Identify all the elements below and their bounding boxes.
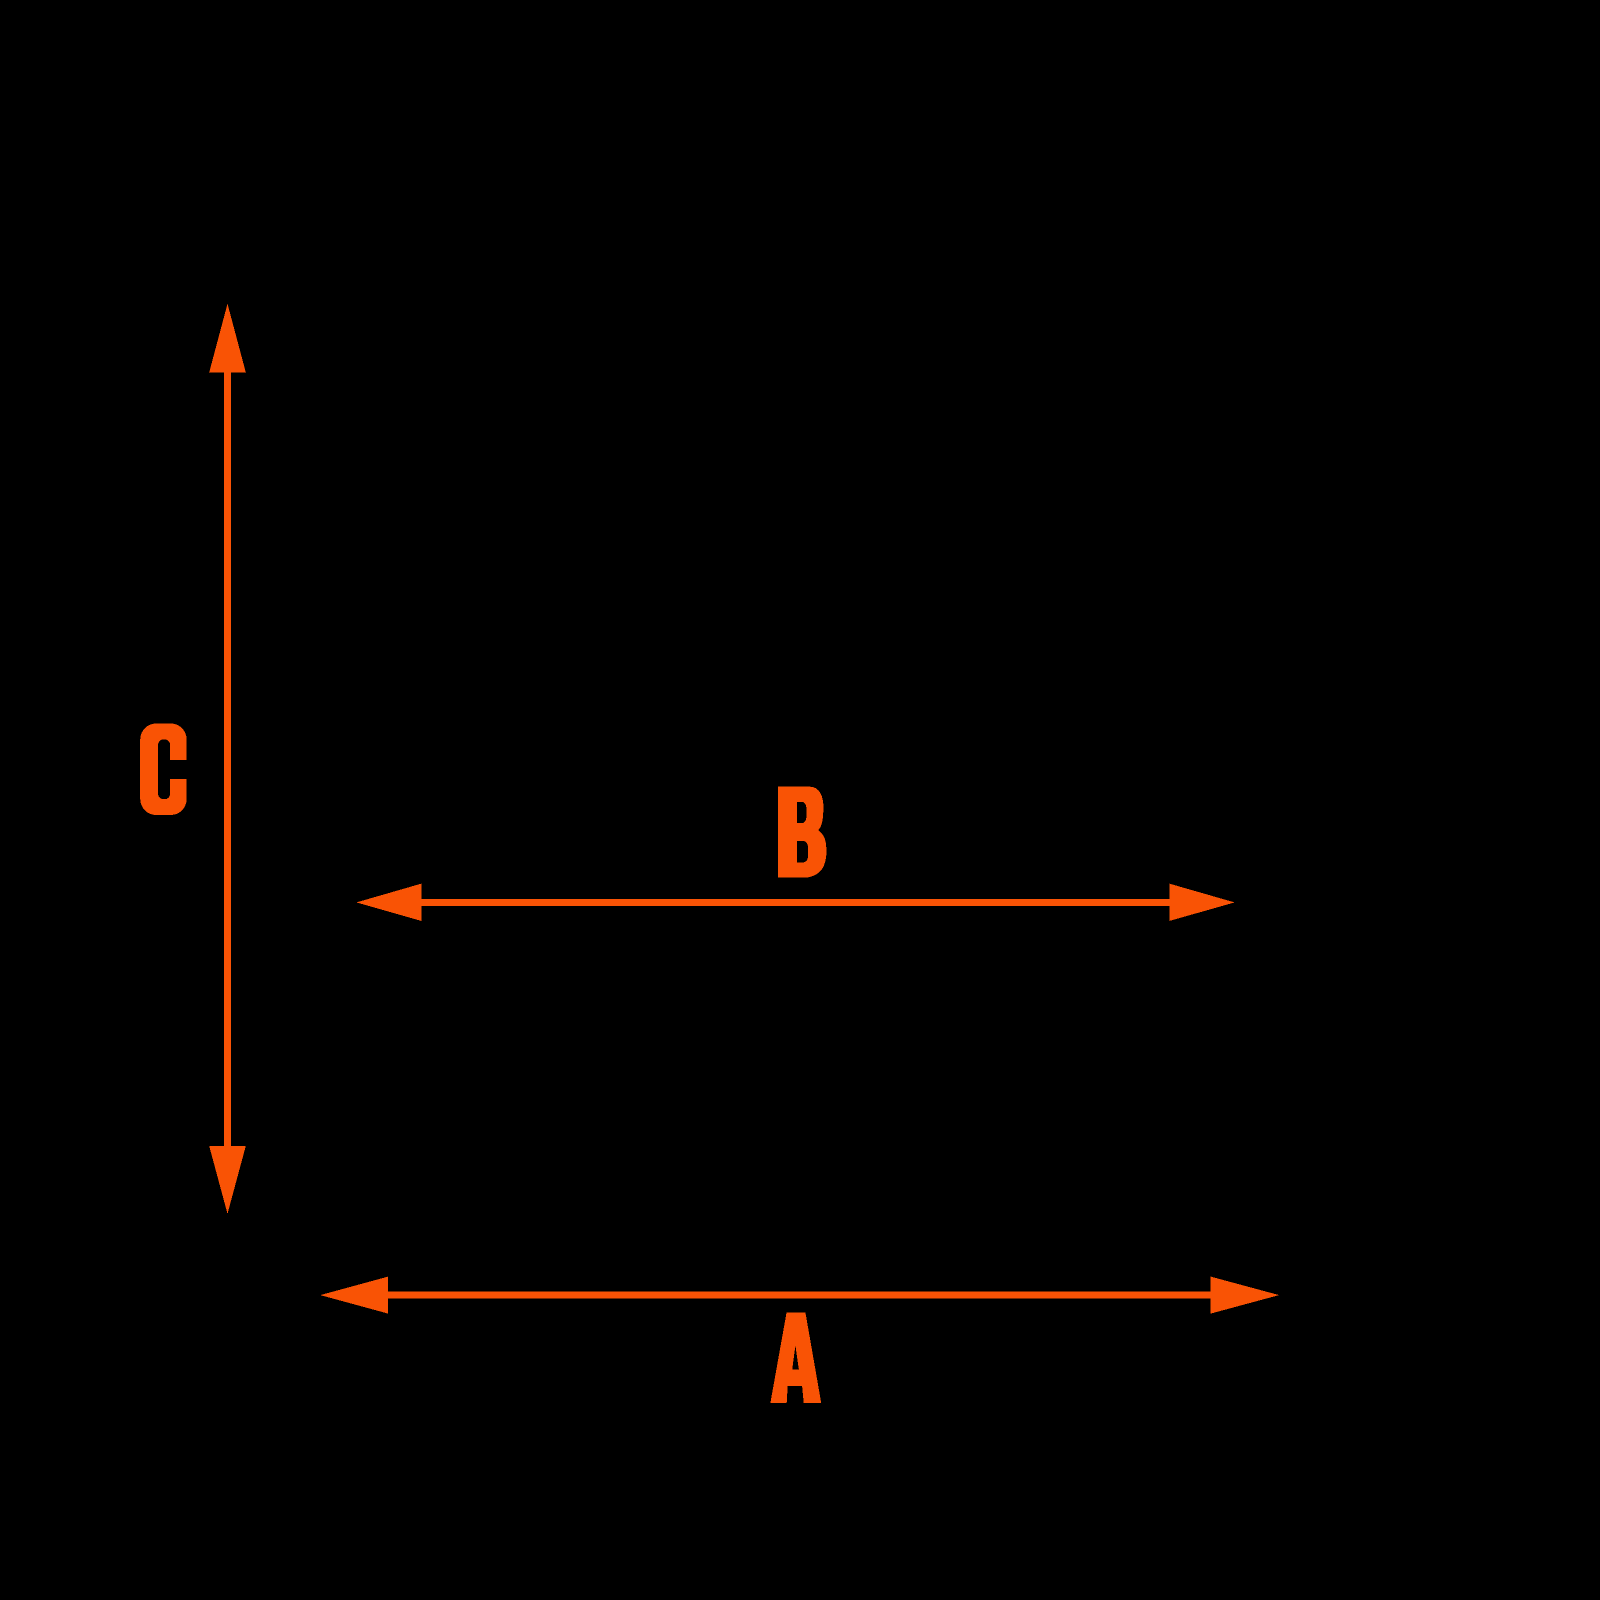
wire: arrow A shaft — [388, 1292, 1212, 1299]
label C — [140, 724, 190, 816]
arrowhead A left — [320, 1277, 388, 1314]
dimension arrow A (horizontal, double-headed) — [320, 1277, 1279, 1314]
dimension arrow C (vertical, double-headed) — [209, 304, 246, 1214]
wire: arrow B shaft — [421, 899, 1169, 906]
arrowhead A right — [1211, 1277, 1279, 1314]
arrowhead C bottom — [209, 1146, 246, 1214]
wire: arrow C shaft — [224, 370, 231, 1148]
label A — [770, 1312, 821, 1403]
arrowhead B right — [1169, 884, 1234, 921]
dimension arrow B (horizontal, double-headed) — [356, 884, 1234, 921]
arrowhead C top — [209, 304, 246, 373]
arrowhead B left — [356, 884, 421, 921]
label B — [778, 787, 826, 878]
